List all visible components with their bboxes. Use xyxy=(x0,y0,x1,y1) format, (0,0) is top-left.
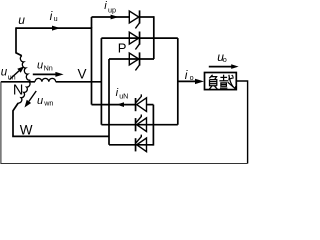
svg-text:i: i xyxy=(116,87,119,99)
svg-text:up: up xyxy=(108,5,116,14)
svg-text:N: N xyxy=(13,82,23,98)
svg-text:P: P xyxy=(118,41,127,56)
svg-text:u: u xyxy=(37,95,43,107)
svg-text:Nn: Nn xyxy=(44,63,53,72)
svg-text:u: u xyxy=(37,59,43,71)
svg-text:i: i xyxy=(104,0,107,12)
svg-text:o: o xyxy=(190,73,194,82)
svg-text:u: u xyxy=(18,13,25,27)
svg-text:u: u xyxy=(54,14,58,23)
svg-text:i: i xyxy=(50,9,53,23)
svg-text:V: V xyxy=(78,66,87,81)
svg-text:un: un xyxy=(8,72,16,81)
svg-text:W: W xyxy=(20,122,33,137)
svg-text:wn: wn xyxy=(43,99,53,108)
svg-text:o: o xyxy=(223,55,227,64)
svg-text:uN: uN xyxy=(119,92,128,101)
svg-text:i: i xyxy=(185,68,188,82)
